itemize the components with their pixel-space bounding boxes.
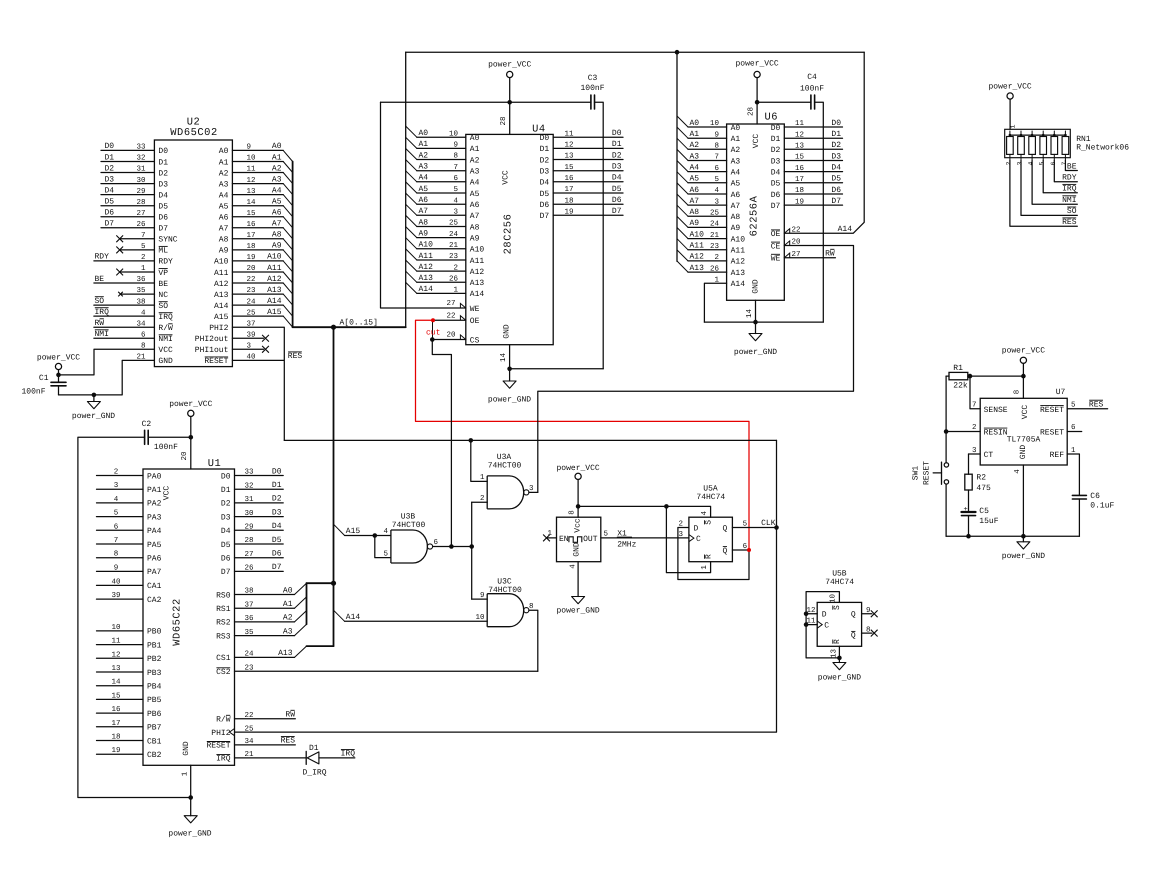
- svg-text:D3: D3: [771, 157, 781, 166]
- junction U6 GND: [753, 320, 758, 325]
- svg-text:A1: A1: [731, 135, 741, 144]
- svg-text:CS1: CS1: [216, 654, 231, 663]
- wire U3C output to U1 CS2: [529, 610, 538, 671]
- bus entry A13 (U2 side): [283, 294, 292, 305]
- U6 WE pin name+number: [771, 254, 781, 263]
- junction U4 VCC: [507, 100, 512, 105]
- svg-text:D0: D0: [612, 129, 622, 138]
- svg-text:VCC: VCC: [158, 346, 173, 355]
- wire U6 WE + net label RW: [784, 257, 835, 259]
- power_GND symbol below X1: [572, 597, 585, 604]
- U1 VCC pin 20 stub: [190, 437, 192, 469]
- wire U2 A0 + net label A0: [232, 149, 283, 151]
- wire U2 A1 + net label A1: [232, 161, 283, 163]
- svg-text:62256A: 62256A: [749, 195, 761, 236]
- svg-text:PHI2: PHI2: [211, 729, 230, 738]
- wire A14 down to U6 OE: [784, 52, 864, 233]
- U5B D pin stub: [806, 613, 817, 615]
- svg-text:6: 6: [1071, 423, 1076, 432]
- svg-text:U7: U7: [1056, 388, 1066, 397]
- svg-text:4: 4: [1028, 161, 1035, 165]
- svg-text:475: 475: [976, 484, 991, 493]
- wire U2 D4 stub + net label D4: [101, 194, 154, 196]
- wire U2 A15 + net label A15: [232, 315, 283, 317]
- wire U2 RDY + net label RDY: [94, 260, 154, 262]
- svg-text:C3: C3: [588, 74, 598, 83]
- svg-text:74HC74: 74HC74: [825, 578, 854, 587]
- U5B R pin name (rotated): [833, 639, 842, 644]
- svg-text:power_GND: power_GND: [1002, 552, 1045, 561]
- svg-text:power_GND: power_GND: [734, 348, 777, 357]
- svg-text:R: R: [705, 554, 714, 559]
- svg-text:D: D: [822, 611, 827, 620]
- bus entry A15 (U2 side): [283, 316, 292, 327]
- svg-text:D1: D1: [105, 153, 115, 162]
- bus entry A6 (U2 side): [283, 217, 292, 228]
- svg-text:A[0..15]: A[0..15]: [340, 319, 378, 328]
- svg-text:power_VCC: power_VCC: [556, 464, 599, 473]
- svg-text:D4: D4: [831, 163, 841, 172]
- svg-text:PB0: PB0: [147, 628, 162, 637]
- wire REF to C6: [1067, 454, 1079, 495]
- bus entry A8 (U2 side): [283, 239, 292, 250]
- svg-text:D5: D5: [158, 203, 168, 212]
- U6 GND pin 14 stub: [755, 300, 757, 322]
- U5A C clock wedge: [689, 535, 694, 542]
- wire RN1 pin 7 to net label BE: [1065, 160, 1077, 170]
- wire C2 to U1 ground junction: [78, 437, 191, 797]
- svg-text:74HCT00: 74HCT00: [392, 521, 426, 530]
- svg-text:15uF: 15uF: [979, 517, 998, 526]
- U2 pin 6 (NMI) name+number: [158, 335, 172, 344]
- svg-text:A10: A10: [214, 258, 229, 267]
- svg-text:A7: A7: [219, 225, 229, 234]
- svg-text:PB7: PB7: [147, 724, 162, 733]
- svg-text:R/W: R/W: [216, 716, 231, 725]
- no-connect X on U2 ML: [120, 249, 155, 251]
- svg-text:8: 8: [568, 510, 577, 515]
- wire R1 to VCC: [970, 375, 1023, 377]
- svg-text:Q: Q: [722, 524, 727, 533]
- wire U2 D1 stub + net label D1: [101, 161, 154, 163]
- svg-text:RESIN: RESIN: [984, 428, 1008, 437]
- svg-text:3: 3: [678, 530, 683, 539]
- svg-text:CA1: CA1: [147, 582, 162, 591]
- wire RN1 pin 6 to net label RDY: [1054, 160, 1077, 182]
- svg-text:PB6: PB6: [147, 710, 162, 719]
- svg-text:SYNC: SYNC: [158, 236, 177, 245]
- svg-text:OE: OE: [470, 317, 480, 326]
- power_VCC symbol above U4: [507, 71, 513, 77]
- no-connect X on U5B Q: [862, 613, 872, 615]
- svg-text:1: 1: [701, 565, 709, 570]
- junction U7 GND: [1021, 534, 1026, 539]
- no-connect X on U2 PHI2out: [232, 337, 263, 339]
- svg-text:D2: D2: [612, 151, 622, 160]
- svg-text:power_GND: power_GND: [556, 607, 599, 616]
- red junction at U5A Qbar: [747, 548, 751, 552]
- X1 VCC pin stub: [577, 506, 579, 517]
- svg-text:A8: A8: [690, 208, 700, 217]
- RN1 resistor element 4: [1042, 131, 1044, 137]
- svg-text:A3: A3: [219, 180, 229, 189]
- svg-text:5: 5: [383, 550, 388, 558]
- svg-text:A3: A3: [690, 152, 700, 161]
- svg-text:D0: D0: [771, 124, 781, 133]
- svg-text:C: C: [824, 622, 829, 631]
- net label IRQ at D1: [341, 750, 356, 759]
- svg-text:A9: A9: [470, 234, 480, 243]
- U6 OE pin name+number: [771, 230, 781, 239]
- wire U6 CE to U3A output: [538, 246, 854, 493]
- svg-text:REF: REF: [1050, 451, 1065, 460]
- wire U2 D5 stub + net label D5: [101, 205, 154, 207]
- junction U5B ground: [837, 656, 842, 661]
- svg-text:D3: D3: [272, 508, 282, 517]
- wire U2 A11 + net label A11: [232, 271, 283, 273]
- wire U2 IRQ + net label IRQ: [94, 315, 154, 317]
- IC U5B body (74HC74 flip-flop): [817, 602, 861, 646]
- svg-text:A4: A4: [272, 186, 282, 195]
- svg-text:R_Network06: R_Network06: [1076, 144, 1129, 153]
- svg-text:14: 14: [500, 353, 508, 363]
- wire U2 A14 + net label A14: [232, 304, 283, 306]
- svg-text:A3: A3: [419, 163, 429, 172]
- svg-text:D7: D7: [771, 202, 781, 211]
- svg-text:VCC: VCC: [752, 134, 761, 149]
- svg-text:A12: A12: [267, 275, 282, 284]
- svg-text:RESET: RESET: [1040, 406, 1064, 415]
- svg-text:A12: A12: [419, 263, 434, 272]
- svg-text:D1: D1: [540, 145, 550, 154]
- svg-text:A12: A12: [731, 258, 746, 267]
- junction A14 top: [675, 50, 680, 55]
- junction VCC branch to reset pin: [664, 504, 669, 509]
- svg-text:WE: WE: [771, 255, 781, 264]
- wire U2 A4 + net label A4: [232, 194, 283, 196]
- bus entry A14 (U2 side): [283, 305, 292, 316]
- svg-text:4: 4: [1014, 469, 1022, 474]
- svg-text:GND: GND: [182, 741, 191, 756]
- svg-text:D6: D6: [105, 209, 115, 218]
- svg-text:R/W: R/W: [158, 324, 173, 333]
- wire jumper OE to CS (cut point): [432, 320, 434, 339]
- svg-text:10: 10: [475, 613, 485, 622]
- wire U7 ground rail: [946, 535, 1079, 537]
- junction X1 VCC: [576, 504, 581, 509]
- svg-text:A0: A0: [731, 124, 741, 133]
- svg-text:RESET: RESET: [923, 461, 932, 485]
- svg-text:D4: D4: [612, 174, 622, 183]
- svg-text:D2: D2: [272, 495, 282, 504]
- svg-text:A14: A14: [838, 225, 853, 234]
- U6 VCC pin 28 stub: [756, 102, 758, 124]
- bus trunk at U2 right: [292, 162, 294, 328]
- wire U2 RESET + net label RES: [232, 359, 283, 361]
- svg-text:A4: A4: [470, 179, 480, 188]
- wire U2 A2 + net label A2: [232, 172, 283, 174]
- svg-text:A2: A2: [272, 164, 282, 173]
- svg-text:C: C: [696, 535, 701, 544]
- svg-text:NMI: NMI: [1062, 196, 1076, 205]
- svg-text:A9: A9: [419, 229, 429, 238]
- svg-text:D1: D1: [831, 130, 841, 139]
- svg-text:A14: A14: [470, 290, 485, 299]
- svg-text:D2: D2: [221, 500, 231, 509]
- svg-text:D6: D6: [540, 201, 550, 210]
- wire U2 A6 + net label A6: [232, 216, 283, 218]
- svg-text:A2: A2: [690, 141, 700, 150]
- svg-text:D0: D0: [105, 142, 115, 151]
- svg-text:1: 1: [547, 530, 552, 538]
- svg-text:U6: U6: [765, 111, 779, 123]
- svg-text:A15: A15: [346, 527, 361, 536]
- wire PHI2 from U2 pin 37: [232, 327, 284, 440]
- junction RESIN: [944, 429, 949, 434]
- RN1 resistor element 2: [1020, 131, 1022, 137]
- svg-text:22: 22: [446, 312, 455, 321]
- X1 square wave glyph: [569, 537, 582, 543]
- power_VCC symbol above U6: [754, 71, 760, 77]
- wire RN1 pin 2 to net label RES: [1010, 160, 1077, 226]
- wire U5A D to Qbar feedback: [678, 528, 749, 580]
- svg-text:S: S: [705, 520, 714, 525]
- svg-text:D5: D5: [831, 175, 841, 184]
- svg-text:power_GND: power_GND: [168, 830, 211, 839]
- U1 pin 22 (R/W) name+number, wire, net label RW: [216, 715, 231, 724]
- svg-text:PA7: PA7: [147, 568, 162, 577]
- wire U3C pin9 from /A15: [472, 598, 488, 600]
- svg-text:D6: D6: [158, 214, 168, 223]
- NAND gate U3A body: [487, 476, 524, 509]
- X1 GND pin stub: [577, 562, 579, 597]
- svg-text:D4: D4: [540, 179, 550, 188]
- bus entry A14 to U3C: [334, 610, 345, 621]
- svg-text:A8: A8: [219, 236, 229, 245]
- bus entry A0 (U2 side): [283, 150, 292, 161]
- svg-text:SO: SO: [1067, 207, 1077, 216]
- U4 GND pin 14 stub (rotated number): [509, 345, 511, 369]
- wire SENSE from R1: [970, 376, 980, 409]
- power_GND symbol below U7: [1022, 536, 1024, 542]
- svg-text:RS0: RS0: [216, 591, 231, 600]
- svg-text:D2: D2: [540, 156, 550, 165]
- svg-text:power_GND: power_GND: [488, 396, 531, 405]
- svg-text:D6: D6: [612, 196, 622, 205]
- svg-text:13: 13: [829, 649, 838, 659]
- wire U2 A13 + net label A13: [232, 293, 283, 295]
- svg-text:U1: U1: [208, 458, 222, 470]
- resistor R2: [968, 454, 970, 474]
- IC U1 body (WD65C22 VIA): [143, 469, 235, 765]
- junction at C1 top: [56, 373, 61, 378]
- svg-text:R: R: [833, 639, 842, 644]
- power_VCC symbol above U7: [1020, 357, 1026, 363]
- svg-text:D2: D2: [771, 146, 781, 155]
- svg-text:VP: VP: [158, 269, 168, 278]
- wire U2 A12 + net label A12: [232, 282, 283, 284]
- svg-text:A13: A13: [214, 291, 229, 300]
- bus entry A2 (U2 side): [283, 173, 292, 184]
- svg-text:D0: D0: [158, 147, 168, 156]
- svg-text:D4: D4: [272, 522, 282, 531]
- power_GND symbol below U5B: [838, 658, 840, 663]
- svg-text:Q: Q: [851, 632, 856, 641]
- wire RN1 pin 3 to net label SO: [1021, 160, 1077, 215]
- svg-text:EN: EN: [559, 535, 569, 544]
- wire U2 A3 + net label A3: [232, 183, 283, 185]
- svg-text:CT: CT: [984, 451, 994, 460]
- wire A15 to U3B input + net label A15: [345, 535, 391, 537]
- svg-text:A0: A0: [219, 147, 229, 156]
- svg-text:22k: 22k: [953, 382, 968, 391]
- svg-text:A6: A6: [272, 209, 282, 218]
- svg-text:RW: RW: [825, 250, 835, 259]
- svg-text:SENSE: SENSE: [984, 406, 1008, 415]
- svg-text:RDY: RDY: [95, 253, 110, 262]
- bus entry A5 (U2 side): [283, 206, 292, 217]
- svg-text:A12: A12: [690, 253, 705, 262]
- wire C4 to ground rail: [815, 102, 824, 322]
- wire C1 bottom to GND junction: [59, 394, 94, 396]
- svg-text:A5: A5: [419, 185, 429, 194]
- svg-text:A14: A14: [419, 285, 434, 294]
- junction C5 bottom: [966, 534, 971, 539]
- wire A14 to U3C pin10 + net label A14: [345, 620, 488, 622]
- svg-text:RESET: RESET: [1040, 428, 1064, 437]
- wire /A15 vertical to U3A pin2 and U3C pin9: [471, 502, 473, 599]
- svg-text:A7: A7: [272, 220, 282, 229]
- red wire cut net: [416, 320, 750, 550]
- svg-text:RESET: RESET: [206, 742, 230, 751]
- svg-text:A12: A12: [214, 280, 229, 289]
- svg-text:C4: C4: [807, 73, 817, 82]
- svg-text:Q: Q: [722, 547, 727, 556]
- svg-text:100nF: 100nF: [580, 84, 604, 93]
- svg-text:A6: A6: [470, 201, 480, 210]
- svg-text:PA4: PA4: [147, 527, 162, 536]
- capacitor C4: [810, 95, 812, 109]
- svg-text:PHI1out: PHI1out: [195, 346, 229, 355]
- svg-text:Q: Q: [851, 611, 856, 620]
- svg-text:A13: A13: [278, 649, 293, 658]
- wire U2 D6 stub + net label D6: [101, 216, 154, 218]
- wire U2 A9 + net label A9: [232, 249, 283, 251]
- svg-text:28: 28: [499, 116, 508, 125]
- svg-text:A11: A11: [690, 242, 705, 251]
- svg-text:A13: A13: [419, 274, 434, 283]
- wire U4 ground rail: [510, 368, 604, 370]
- svg-text:D3: D3: [105, 175, 115, 184]
- power_GND symbol below U6: [755, 322, 757, 333]
- svg-text:D_IRQ: D_IRQ: [303, 769, 327, 778]
- wire U2 D7 stub + net label D7: [101, 227, 154, 229]
- bus entry A9 (U2 side): [283, 250, 292, 261]
- U7 RESIN pin name: [984, 428, 1008, 437]
- svg-text:A8: A8: [419, 218, 429, 227]
- svg-text:A7: A7: [419, 207, 429, 216]
- svg-text:OE: OE: [771, 230, 781, 239]
- svg-text:RW: RW: [285, 711, 295, 720]
- svg-text:D5: D5: [272, 536, 282, 545]
- junction U6 VCC: [755, 100, 760, 105]
- svg-text:PHI2: PHI2: [209, 324, 228, 333]
- svg-text:1: 1: [1010, 124, 1017, 128]
- svg-text:D: D: [694, 524, 699, 533]
- svg-text:A4: A4: [219, 191, 229, 200]
- svg-text:5: 5: [1039, 161, 1046, 165]
- svg-text:BE: BE: [1067, 162, 1077, 171]
- U5B Qbar pin name: [851, 631, 856, 640]
- no-connect x on U2 NC: [121, 293, 155, 295]
- U2 pin 40 (RESET) name+number: [204, 357, 228, 366]
- bus sub-trunk at U1 RS pins: [306, 583, 308, 624]
- svg-text:D7: D7: [158, 225, 168, 234]
- bus trunk at U4 left / A14 wire top: [405, 52, 407, 327]
- U2 pin 34 (R/W) name+number: [158, 324, 173, 333]
- svg-text:74HCT00: 74HCT00: [488, 462, 522, 471]
- svg-text:74HC74: 74HC74: [696, 493, 725, 502]
- svg-text:A11: A11: [267, 264, 282, 273]
- wire U3A output up: [529, 491, 538, 493]
- wire U2 A10 + net label A10: [232, 260, 283, 262]
- svg-text:A10: A10: [731, 235, 746, 244]
- svg-text:A10: A10: [419, 241, 434, 250]
- wire U2 A8 + net label A8: [232, 238, 283, 240]
- U5A S pin name (rotated): [705, 520, 714, 525]
- svg-text:S: S: [833, 605, 842, 610]
- svg-text:A13: A13: [470, 279, 485, 288]
- svg-text:R1: R1: [953, 364, 963, 373]
- svg-text:D6: D6: [771, 191, 781, 200]
- power_GND symbol below U4: [509, 369, 511, 381]
- junction A15 loop: [373, 533, 378, 538]
- svg-text:2: 2: [1005, 161, 1012, 165]
- U5B C clock wedge: [817, 621, 822, 628]
- svg-text:PB1: PB1: [147, 641, 162, 650]
- svg-text:power_VCC: power_VCC: [37, 354, 80, 363]
- capacitor C1: [58, 375, 60, 382]
- svg-text:A11: A11: [470, 257, 485, 266]
- svg-text:A12: A12: [470, 268, 485, 277]
- U7 GND pin 4 stub: [1022, 465, 1024, 536]
- svg-text:D3: D3: [540, 168, 550, 177]
- junction U7 VCC: [1021, 374, 1026, 379]
- svg-text:100nF: 100nF: [22, 388, 46, 397]
- svg-text:C2: C2: [142, 420, 152, 429]
- junction U3B output to U3A/U3C: [469, 544, 474, 549]
- bus entry A4 (U2 side): [283, 195, 292, 206]
- svg-text:A13: A13: [267, 286, 282, 295]
- svg-text:WE: WE: [470, 305, 480, 314]
- bus entry A3 (U2 side): [283, 184, 292, 195]
- svg-text:A9: A9: [731, 224, 741, 233]
- svg-text:U3A: U3A: [497, 453, 512, 462]
- wire U3B output: [433, 546, 472, 548]
- bus junction A[0..15]: [331, 325, 336, 330]
- no-connect X on U2 VP: [120, 271, 155, 273]
- svg-text:D2: D2: [831, 141, 841, 150]
- power_GND symbol below U1: [190, 798, 192, 816]
- IC U6 body (62256A SRAM): [727, 124, 785, 300]
- RN1 resistor element 1: [1009, 131, 1011, 137]
- svg-text:VCC: VCC: [502, 170, 511, 185]
- svg-text:VCC: VCC: [1021, 405, 1030, 420]
- svg-text:RDY: RDY: [158, 258, 173, 267]
- svg-text:TL7705A: TL7705A: [1007, 436, 1041, 445]
- svg-text:IRQ: IRQ: [158, 313, 173, 322]
- svg-text:D4: D4: [158, 191, 168, 200]
